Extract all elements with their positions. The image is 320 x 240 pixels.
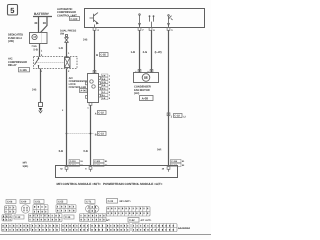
module entry cluster wire2: [94, 160, 105, 163]
label C-15: [64, 215, 74, 219]
svg-text:30: 30: [34, 21, 38, 25]
svg-text:BATTERY: BATTERY: [34, 12, 50, 16]
wire relay contact output: [40, 69, 42, 103]
svg-text:B: B: [95, 133, 97, 136]
wire dual press sw down: [66, 43, 68, 58]
wire battery left drop: [38, 17, 40, 33]
svg-text:C-55: C-55: [58, 201, 64, 204]
svg-text:(L-W): (L-W): [155, 50, 162, 54]
connector M2: [29, 214, 63, 222]
connector M1: [2, 215, 12, 222]
page arrow: [39, 108, 43, 111]
module entry cluster wire1: [69, 160, 80, 163]
svg-text:6AA0269A: 6AA0269A: [178, 227, 190, 230]
connector C-09: [21, 205, 29, 213]
fuse box: [30, 33, 48, 44]
svg-text:30: 30: [43, 21, 47, 25]
svg-text:2-B: 2-B: [83, 38, 87, 42]
motor symbol M: [142, 74, 150, 82]
svg-text:5(51): 5(51): [23, 165, 29, 168]
page number box 5: [8, 5, 18, 16]
lock controller pin list: [101, 74, 108, 77]
connector code C-100: [70, 17, 80, 21]
svg-text:C-55: C-55: [100, 54, 106, 57]
svg-text:C-06: C-06: [7, 201, 13, 204]
right pad 1: [99, 77, 101, 80]
svg-text:2-B: 2-B: [102, 84, 106, 87]
lock controller box: [88, 74, 99, 103]
connector M3: [80, 214, 107, 222]
dual pressure switch symbol: [65, 35, 69, 43]
bottom rule: [0, 234, 211, 236]
junction dot wire1: [66, 133, 68, 135]
pin pad 1: [167, 28, 170, 31]
condenser fan motor box: [134, 73, 159, 83]
svg-text:C-103: C-103: [94, 160, 101, 163]
fan motor pad 1: [138, 70, 141, 73]
svg-text:A-08: A-08: [142, 97, 149, 101]
glyph s3 switch: [168, 15, 173, 28]
svg-text:C-22: C-22: [174, 115, 180, 118]
control unit box: [85, 9, 205, 28]
svg-text:(LH): (LH): [134, 92, 139, 95]
svg-text:0-B: 0-B: [83, 149, 87, 153]
left pad a: [86, 82, 88, 85]
svg-text:C-23: C-23: [98, 133, 104, 136]
lock controller bottom pad: [89, 103, 92, 106]
svg-text:A-06: A-06: [80, 90, 86, 93]
connector N2: [31, 224, 60, 232]
glyph s2 connector: [149, 16, 154, 28]
svg-text:C-51: C-51: [35, 201, 41, 204]
right pad 2: [99, 82, 101, 85]
wire pin4 down: [94, 31, 96, 74]
module pad x90.5: [89, 167, 92, 170]
row1 labels: [6, 200, 16, 204]
transistor U1: [90, 13, 99, 28]
connector C-55: [56, 205, 76, 213]
connector C-71: [86, 205, 99, 214]
dotted connector line: [67, 133, 94, 135]
module pad x66.5: [65, 167, 68, 170]
sensor circles: [90, 80, 93, 83]
wire relay coil output: [66, 69, 68, 167]
terminal box: [39, 103, 43, 107]
svg-text:A/T <A/T>: A/T <A/T>: [141, 219, 152, 222]
relay coil: [65, 58, 71, 68]
connector cell digits: [3, 206, 174, 231]
svg-text:MFI CONTROL MODULE <M/T>: MFI CONTROL MODULE <M/T>: [57, 182, 102, 186]
connector S1: [106, 224, 130, 232]
connector C-06: [5, 206, 17, 214]
connector C-51: [33, 205, 48, 215]
pin pad 7: [138, 28, 141, 31]
wire lock controller down: [90, 105, 92, 166]
fuse box inner dashed divider: [41, 33, 43, 44]
svg-text:C-19: C-19: [108, 200, 114, 203]
svg-text:A/T: A/T: [106, 219, 110, 222]
fuse symbol: [32, 34, 37, 39]
wire fuse output: [39, 44, 41, 57]
connector N1: [2, 224, 30, 232]
connector code A-06: [80, 89, 88, 93]
wire fan 1: [139, 31, 141, 73]
relay contact: [38, 57, 40, 59]
a/c compressor relay dashed box: [34, 57, 78, 69]
wire battery right drop: [41, 17, 48, 33]
svg-text:0-R: 0-R: [157, 147, 161, 151]
engine control module box: [56, 166, 178, 178]
connector S2: [132, 224, 177, 232]
svg-text:C-103: C-103: [70, 160, 77, 163]
module entry cluster wire3: [171, 160, 182, 163]
svg-text:RELAY: RELAY: [8, 64, 17, 67]
connector R1: [107, 207, 151, 217]
svg-text:C-15: C-15: [65, 216, 71, 219]
junction J C-22: [167, 113, 170, 116]
label C-13: [14, 215, 24, 219]
wire battery bus: [33, 16, 52, 18]
svg-text:MFI <M/T>: MFI <M/T>: [120, 200, 132, 203]
right pad 3: [99, 87, 101, 90]
right pad 4: [99, 94, 101, 97]
wire fan 2: [151, 31, 153, 73]
left pad b: [86, 96, 88, 99]
relay connector code C-105: [19, 68, 30, 72]
connector N4: [91, 224, 107, 232]
svg-text:1-B: 1-B: [131, 50, 135, 54]
fan motor pad 2: [150, 70, 153, 73]
svg-text:C-71: C-71: [86, 201, 92, 204]
svg-text:C-105: C-105: [20, 69, 28, 72]
svg-text:C-22: C-22: [98, 112, 104, 115]
lock controller top pad: [93, 71, 96, 74]
svg-text:C-52: C-52: [129, 219, 135, 222]
glyph s1 switch: [139, 14, 141, 28]
svg-text:C-13: C-13: [15, 216, 21, 219]
svg-text:C-100: C-100: [71, 18, 78, 21]
svg-text:C-09: C-09: [21, 201, 27, 204]
connector N3: [62, 224, 89, 232]
module pad x168.5: [167, 167, 170, 170]
svg-text:(J/B): (J/B): [8, 40, 14, 43]
svg-text:2-B: 2-B: [32, 88, 36, 92]
svg-text:2-G: 2-G: [143, 50, 148, 54]
svg-text:5: 5: [10, 6, 14, 15]
svg-text:A: A: [95, 112, 97, 115]
svg-text:M: M: [96, 54, 98, 57]
svg-text:0-B: 0-B: [59, 149, 63, 153]
svg-text:1-B: 1-B: [102, 97, 106, 100]
svg-text:POWERTRAIN CONTROL MODULE <A/T: POWERTRAIN CONTROL MODULE <A/T>: [103, 182, 163, 186]
wire right long: [168, 31, 170, 167]
pin pad 6: [149, 28, 152, 31]
junction dot wire2: [90, 133, 92, 135]
svg-text:C-118: C-118: [171, 160, 177, 163]
svg-text:SW: SW: [60, 32, 65, 35]
label C-19: [107, 199, 118, 204]
pin pad 4: [93, 28, 96, 31]
svg-text:5-B: 5-B: [33, 47, 37, 51]
connector code A-08: [140, 96, 154, 101]
relay linkage dotted: [37, 62, 65, 64]
